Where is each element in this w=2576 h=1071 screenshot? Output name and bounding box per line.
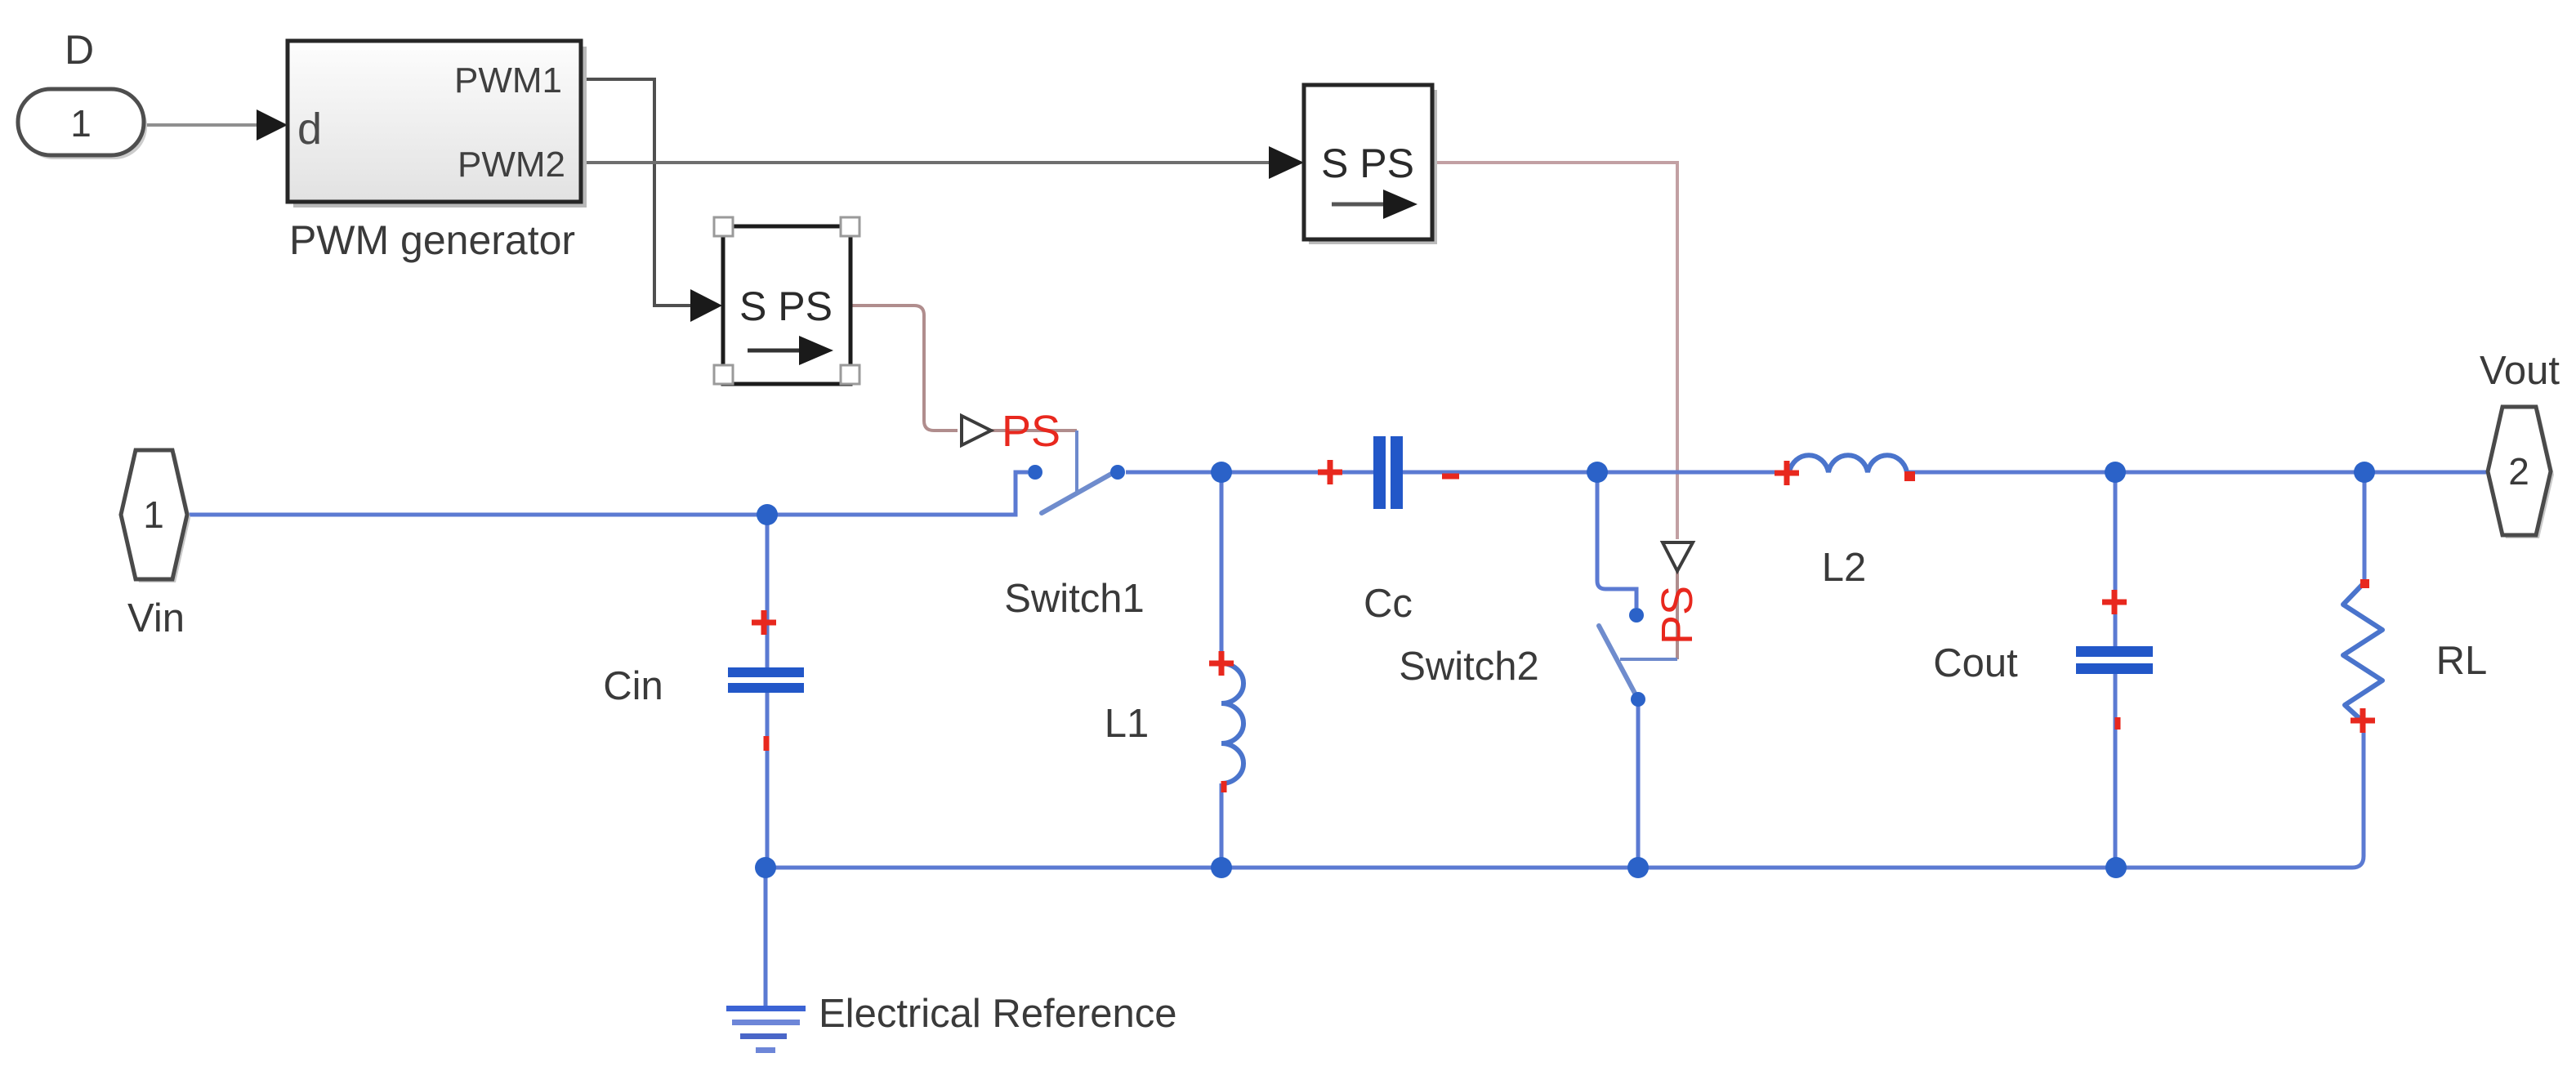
svg-text:2: 2 [2508, 450, 2529, 493]
svg-text:PWM2: PWM2 [458, 145, 565, 185]
svg-text:1: 1 [143, 493, 164, 536]
svg-text:Switch1: Switch1 [1004, 577, 1145, 621]
svg-text:Vout: Vout [2480, 349, 2560, 393]
svg-text:Cin: Cin [603, 664, 663, 708]
svg-text:Switch2: Switch2 [1399, 645, 1539, 689]
svg-text:Electrical Reference: Electrical Reference [819, 992, 1176, 1036]
svg-text:PWM generator: PWM generator [289, 217, 575, 263]
svg-text:Cc: Cc [1364, 582, 1413, 626]
svg-text:D: D [65, 27, 94, 73]
svg-text:PS: PS [1002, 407, 1060, 456]
svg-text:RL: RL [2436, 639, 2488, 683]
svg-text:1: 1 [70, 102, 92, 145]
svg-text:L1: L1 [1105, 702, 1150, 746]
svg-text:S PS: S PS [739, 283, 833, 329]
svg-text:Cout: Cout [1933, 641, 2018, 685]
svg-text:PS: PS [1653, 586, 1702, 645]
svg-text:Vin: Vin [127, 596, 185, 640]
svg-text:d: d [297, 105, 322, 154]
svg-text:PWM1: PWM1 [454, 60, 562, 100]
svg-text:S PS: S PS [1321, 141, 1414, 186]
svg-text:L2: L2 [1822, 546, 1867, 590]
